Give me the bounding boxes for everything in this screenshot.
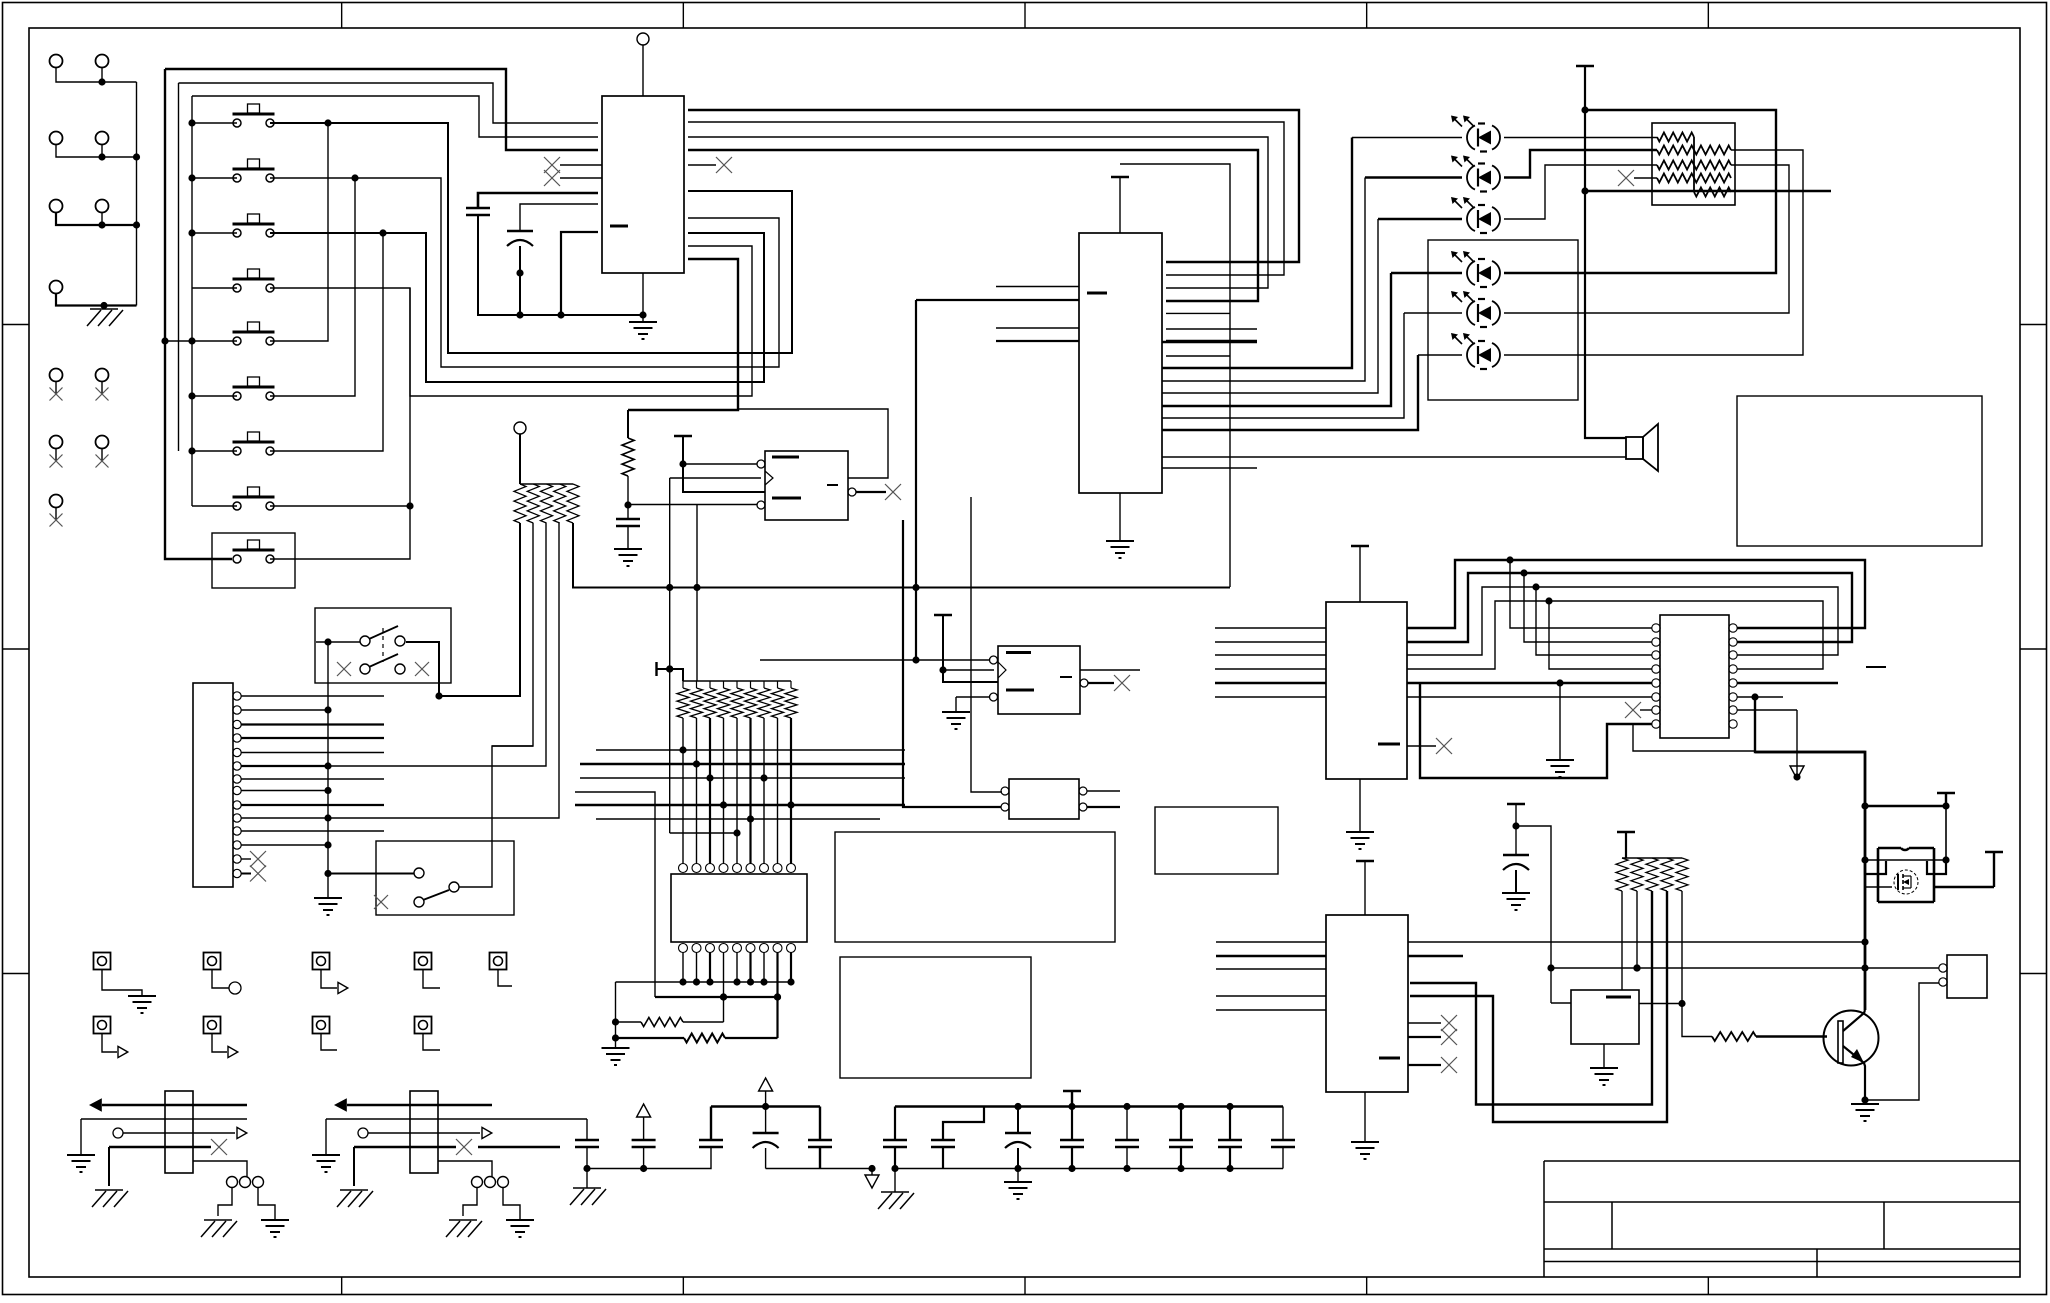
no-connect X U7 nc710 — [1625, 702, 1641, 718]
ground U6 ground — [1346, 832, 1374, 849]
wire U1 top pin — [642, 45, 644, 96]
wire C22 top — [710, 1107, 712, 1141]
chassis ground jack ground — [87, 309, 123, 326]
wire U3 vcc stem — [939, 615, 998, 682]
wire key bus — [324, 638, 331, 898]
wire U2 in1 — [683, 463, 757, 465]
wire bus r5 branch b — [1166, 355, 1230, 357]
resistor R3 — [684, 1034, 725, 1043]
wire U1 nc right — [688, 164, 716, 166]
wire U4 pin 457 speaker — [1162, 456, 1626, 458]
wire riser D lower — [270, 288, 414, 559]
capacitor C2 — [507, 231, 533, 246]
wire bank rail bottom 1 — [587, 1147, 711, 1172]
test point TP5 — [490, 953, 507, 970]
resonator Y1 — [1001, 779, 1087, 819]
wire C21 top — [643, 1117, 645, 1140]
no-connect X FB1 x — [211, 1139, 227, 1155]
wire C28 bot — [1071, 1147, 1073, 1169]
test point TP7 — [204, 1017, 221, 1034]
test jack TJ2 — [96, 369, 109, 401]
wire Q2 source out — [1934, 886, 1994, 888]
wire U5 bottom pin 1 — [679, 952, 686, 986]
wire FB2 line4 gnd — [353, 1147, 355, 1186]
ground Q1 ground — [1851, 1104, 1879, 1121]
FB1 circle pin — [113, 1128, 123, 1138]
wire LED1 net — [1162, 138, 1352, 369]
resistor network RN4 — [1616, 858, 1688, 891]
wire U4 stub 470 — [1162, 467, 1257, 469]
LED D5 — [1451, 291, 1500, 327]
wire J8 pin 752.5 — [241, 752, 384, 754]
wire FB1 line4 — [109, 1146, 211, 1148]
op-amp U2 — [757, 451, 856, 520]
wire U6-U7 697 — [1407, 696, 1652, 698]
ground mid ground — [1546, 760, 1574, 777]
filter block FB1 — [165, 1091, 193, 1173]
wire C25 bot — [894, 1147, 896, 1169]
wire U1 bus r3 — [688, 137, 1268, 288]
wire C10 bot stem — [1515, 870, 1517, 893]
wire U1 pin loop thick — [478, 193, 598, 208]
wire U1 left nc1 — [560, 164, 602, 166]
IC U4 — [1079, 233, 1162, 493]
wire J7 to ground — [56, 294, 137, 310]
resistor network RN3 — [1652, 123, 1735, 205]
wire U6 top pin — [1359, 546, 1361, 602]
wire RN2 drop 5 — [736, 718, 738, 864]
test point TP8 — [313, 1017, 330, 1034]
wire J8 pin 873 — [241, 873, 251, 875]
power flag bank vcc — [1063, 1090, 1081, 1092]
wire LED2 net — [1162, 178, 1365, 382]
wire J3-J4 join — [56, 145, 140, 161]
TP2 pin circle — [229, 982, 241, 994]
wire U2 out2 — [738, 409, 888, 478]
wire J8 pin 724.5 — [241, 723, 384, 725]
wire button row 233 left — [192, 232, 237, 234]
wire Y1 right stub1 — [1087, 790, 1120, 792]
ground C3 ground — [614, 549, 642, 566]
no-connect X U1 nc2 — [544, 170, 560, 186]
wire top bus 1 — [165, 69, 598, 150]
wire bank neg stem — [871, 1169, 873, 1176]
speaker LS1 — [1626, 424, 1658, 471]
slide switch SW10 — [315, 608, 451, 683]
wire C23 bot — [765, 1148, 767, 1169]
wire U4 stub b — [996, 327, 1079, 329]
wire RN2 drop 2 — [696, 718, 698, 864]
wire FB2 to C bank — [478, 1146, 560, 1148]
wire J8 pin 766 — [241, 765, 328, 767]
connector jack J1 — [50, 55, 63, 68]
FB2 circle pin — [358, 1128, 368, 1138]
wire SW4 net — [270, 246, 752, 396]
wire U6 bottom pin — [1359, 779, 1361, 832]
wire RN4 vcc stem — [1625, 832, 1627, 858]
ground U3 ground — [942, 712, 970, 729]
wire U3 gnd stem — [955, 697, 957, 712]
wire J8 pin 805 — [241, 804, 384, 806]
power flag U9 vcc — [1356, 860, 1374, 862]
wire net 968 — [1551, 964, 1865, 971]
wire SW11 riser — [459, 746, 533, 887]
box around D4-D6 — [1428, 240, 1578, 400]
wire FB1 line2 — [81, 1118, 247, 1120]
wire bus jog1 — [1407, 556, 1865, 628]
wire button row 451 left — [192, 450, 237, 452]
wire U2 vcc stem — [679, 436, 765, 492]
wire R2 lead b — [683, 1021, 724, 1023]
wire TP3 tail — [321, 969, 337, 988]
no-connect X J8 nc 873 — [250, 866, 266, 882]
wire FB2 line3 — [368, 1132, 480, 1134]
wire top bus 3 — [192, 96, 598, 137]
ground key bus ground — [314, 898, 342, 915]
no-connect X U1 ncr — [716, 157, 732, 173]
wire U1 bottom pin — [642, 273, 644, 322]
wire U7 right 683 — [1737, 682, 1838, 684]
test point TP6 — [94, 1017, 111, 1034]
wire LED4 row — [1391, 272, 1462, 274]
wire button row 178 left — [192, 177, 237, 179]
wire LED5 right — [1504, 165, 1789, 313]
transistor Q1 — [1824, 1011, 1879, 1066]
wire U9 nc 1065 — [1408, 1064, 1441, 1066]
wire FB2 shield gnd2 — [503, 1188, 520, 1220]
wire LED5 net — [1162, 313, 1404, 418]
wire LED3 row — [1378, 218, 1462, 220]
resistor R4 — [1712, 1032, 1756, 1041]
wire gate wire — [1865, 886, 1892, 888]
filter block FB2 — [410, 1091, 438, 1173]
test jack TJ3 — [50, 436, 63, 468]
IC U9 — [1326, 915, 1408, 1092]
wire J8 pin 696 — [241, 695, 384, 697]
wire bank rail top 1 — [711, 1103, 820, 1110]
power arrow C21 arrow — [637, 1104, 651, 1117]
wire U7 right 710 — [1737, 709, 1797, 711]
test point TP2 — [204, 953, 221, 970]
module A1 — [1737, 396, 1982, 546]
wire FB2 line5 — [438, 1161, 492, 1177]
wire FB2 shield gnd1 — [463, 1188, 477, 1216]
no-connect X U9 x1037 — [1441, 1029, 1457, 1045]
wire C24 bot — [819, 1147, 821, 1169]
wire R net to U1 pin — [628, 259, 738, 410]
box around SW9 — [212, 533, 295, 588]
wire U6 left pin 642 — [1215, 641, 1326, 643]
wire SW10 left — [316, 641, 360, 643]
IC U5 — [671, 864, 807, 953]
wire J8 pin 818 — [241, 817, 328, 819]
wire TP1 gnd — [102, 969, 142, 996]
power flag V+ rail — [1576, 65, 1594, 67]
wire U9 left pin 969 — [1216, 968, 1326, 970]
wire U6 left pin 669 — [1215, 668, 1326, 670]
resistor network RN1 — [514, 484, 579, 523]
switch SW11 — [374, 841, 514, 915]
wire U2 out — [856, 491, 886, 493]
wire bus jog2 — [1407, 569, 1852, 642]
power flag U6 vcc — [1351, 545, 1369, 547]
wire LED2 right — [1504, 150, 1657, 178]
pushbutton SW2 — [233, 159, 275, 182]
wire C10 tap — [1516, 826, 1555, 1003]
capacitor C25 — [883, 1140, 907, 1147]
wire U7 left tap4 — [1549, 601, 1652, 669]
capacitor C23 — [753, 1133, 779, 1148]
wire riser C lower — [270, 233, 383, 451]
wire riser A lower — [270, 123, 328, 341]
wire FB2 line2 ext — [492, 1118, 587, 1120]
wire C24 top — [819, 1107, 821, 1141]
wire RN4 drop3 — [1410, 891, 1652, 1105]
power flag RN2 vcc — [655, 662, 657, 676]
wire SW5 left ext — [165, 340, 192, 342]
capacitor C20 — [575, 1140, 599, 1147]
wire FB1 line1 — [102, 1104, 247, 1106]
wire C26 top — [943, 1107, 984, 1141]
power flag U3 vcc — [934, 614, 952, 616]
wire clock riser — [666, 478, 673, 833]
wire mid bus 5 — [575, 801, 905, 808]
wire U7 pin 724 loop — [1420, 683, 1652, 778]
wire button left bus A — [161, 69, 232, 559]
wire U8 gnd stem — [1603, 1044, 1605, 1068]
wire bus jog3 — [1407, 583, 1838, 655]
wire J8 pin 738 — [241, 737, 384, 739]
ground U9 ground — [1351, 1142, 1379, 1159]
wire mosfet rail — [1865, 856, 1950, 863]
ground FB1 ground L — [67, 1155, 95, 1172]
wire LED6 right — [1504, 150, 1803, 355]
wire U1 bus r2 — [688, 122, 1284, 275]
FB2 shield circles — [472, 1177, 509, 1188]
wire C27 top — [1017, 1107, 1019, 1134]
module B3 — [840, 957, 1031, 1078]
capacitor C27 — [1005, 1133, 1031, 1148]
wire FB2 line2 gnd — [325, 1119, 327, 1155]
display module DS1 — [835, 832, 1115, 942]
wire R1 top — [627, 410, 629, 438]
wire C28 top — [1071, 1107, 1073, 1141]
wire R2 lead a — [616, 1021, 642, 1023]
chassis ground bank chassis — [878, 1192, 914, 1209]
wire TP7 tail — [212, 1033, 227, 1052]
wire dn arrow stem — [1793, 710, 1800, 781]
power flag Q2 vcc2 — [1985, 851, 2003, 853]
chassis ground FB1 chassis R — [201, 1220, 237, 1237]
wire RN1 drop 2 — [492, 523, 533, 746]
wire TP5 tail — [498, 969, 512, 986]
capacitor C28 — [1060, 1140, 1084, 1147]
wire button row 506 left — [192, 505, 237, 507]
wire LED4 right — [1504, 110, 1776, 273]
wire U9 top pin — [1364, 861, 1366, 915]
wire emitter to J9 — [1865, 983, 1939, 1100]
test point TP1 — [94, 953, 111, 970]
wire C32 top — [1282, 1107, 1284, 1141]
wire U9 left pin 1010 — [1216, 1009, 1326, 1011]
TP3 arrow — [338, 982, 348, 993]
wire riser B lower — [270, 178, 355, 396]
wire C1 bottom — [478, 215, 647, 319]
wire vcc1 to rail — [1945, 806, 1947, 860]
wire C27 bot — [1017, 1148, 1019, 1169]
wire LED6 row — [1418, 354, 1462, 356]
wire mid bus 4 — [575, 792, 655, 997]
wire bank chassis stem — [894, 1169, 896, 1193]
capacitor C32 — [1271, 1140, 1295, 1147]
wire C3 gnd stem — [627, 526, 629, 549]
no-connect X U1 nc1 — [544, 157, 560, 173]
wire U5 bottom pin 8 — [774, 952, 781, 1038]
power arrow neg rail — [1790, 766, 1804, 779]
wire RN4 drop1 — [1621, 891, 1623, 990]
wire col916 — [912, 300, 919, 660]
wire RN4 drop4 — [1410, 891, 1667, 1122]
wire Q2 vcc2 stem — [1993, 852, 1995, 887]
connector jack J2 — [96, 55, 109, 68]
wire U4 top pin — [1119, 177, 1121, 233]
wire col890 — [971, 497, 1002, 792]
wire SW8 right — [270, 505, 410, 507]
wire U4 stub c — [996, 340, 1079, 342]
wire LED4 net — [1162, 273, 1391, 406]
wire U9 left pin 956 — [1216, 955, 1326, 957]
wire U1 bus r1 — [688, 110, 1299, 262]
wire C10 top stem — [1512, 804, 1519, 855]
resistor R2 — [641, 1018, 683, 1027]
wire TP2 tail — [212, 969, 229, 988]
wire button row 288 left — [192, 287, 237, 289]
connector jack J3 — [50, 132, 63, 145]
wire J4 stem — [101, 145, 103, 158]
wire U4 pin 300 — [916, 299, 1079, 301]
wire col696 feed — [696, 505, 698, 682]
wire TP4 tail — [423, 969, 440, 988]
wire U6 left pin 628 — [1215, 627, 1326, 629]
wire J5-J6 join — [56, 213, 140, 229]
wire U9 gnd stem — [1364, 1092, 1366, 1142]
wire 968 to J9 — [1865, 967, 1939, 969]
wire button row 123 left — [192, 122, 237, 124]
title block — [1544, 1161, 2020, 1277]
capacitor C10 — [1503, 855, 1529, 870]
LED D6 — [1451, 333, 1500, 369]
FB2 arrow right — [482, 1127, 492, 1138]
no-connect X U9 x1065 — [1441, 1057, 1457, 1073]
wire Q1 emitter down — [1861, 1063, 1868, 1104]
power flag C10 top flag — [1507, 803, 1525, 805]
LED D2 — [1451, 156, 1500, 192]
wire U3 clock — [943, 669, 994, 671]
chassis ground FB2 chassis R — [446, 1220, 482, 1237]
capacitor C1 — [466, 208, 490, 215]
wire U6-U7 683 — [1407, 679, 1652, 686]
wire C20 gnd stem — [586, 1169, 588, 1189]
wire U9 left pin 942 — [1216, 941, 1326, 943]
wire R rail left — [612, 982, 619, 1048]
wire U7 right 697 — [1737, 693, 1783, 700]
wire TP8 tail — [321, 1033, 337, 1050]
TP6 arrow — [118, 1046, 128, 1057]
capacitor C24 — [808, 1140, 832, 1147]
wire U9 right 941 — [1408, 941, 1695, 943]
wire RN3 out 191 — [1585, 190, 1831, 192]
LED D1 — [1451, 116, 1500, 152]
wire bank vcc stem — [1071, 1091, 1073, 1107]
wire U6 left pin 683 — [1215, 682, 1326, 684]
ground FB2 ground R — [506, 1220, 534, 1237]
LED D4 — [1451, 251, 1500, 287]
power arrow bank neg — [865, 1175, 879, 1188]
no-connect X U2 out nc — [885, 484, 901, 500]
wire U5 bottom pin 3 — [706, 952, 713, 986]
wire U7 left tap2 — [1524, 573, 1652, 642]
ground U8 ground — [1590, 1068, 1618, 1085]
wire FB1 shield gnd1 — [218, 1188, 232, 1216]
wire U1 left nc2 — [560, 177, 602, 179]
test point TP9 — [415, 1017, 432, 1034]
wire RN1 top stub — [519, 434, 521, 484]
wire RN1 drop 1 — [439, 523, 520, 696]
wire U6 left pin 655 — [1215, 654, 1326, 656]
wire pol bottom line — [766, 1165, 876, 1172]
capacitor C29 — [1115, 1140, 1139, 1147]
wire RN2 drop 3 — [709, 718, 711, 864]
wire R3 lead b — [725, 1037, 778, 1039]
wire RN2 drop 9 — [790, 718, 792, 864]
ground U1 ground — [629, 322, 657, 339]
wire vcc rail 997 — [655, 993, 781, 1000]
connector jack J6 — [96, 200, 109, 213]
wire C29 bot — [1126, 1147, 1128, 1169]
wire power trunk — [1755, 752, 1869, 1010]
wire J6 stem — [101, 213, 103, 226]
wire U4 stub 341r — [1166, 340, 1257, 342]
wire FB2 line4 — [354, 1146, 456, 1148]
wire FB1 line4 gnd — [108, 1147, 110, 1186]
RN1 top pin circle — [514, 422, 526, 434]
wire FB2 line2 — [326, 1118, 492, 1120]
IC U1 — [602, 96, 684, 273]
wire J8 pin 710 — [241, 706, 332, 713]
wire U7 right 751 — [1633, 724, 1755, 751]
wire mid bus 7 — [670, 829, 741, 836]
wire TP6 tail — [102, 1033, 117, 1052]
wire bus jog4 — [1407, 597, 1823, 669]
wire U9 left pin 996 — [1216, 995, 1326, 997]
wire J8 pin 790.5 — [241, 787, 332, 794]
wire U2 clock — [670, 477, 761, 479]
test point TP3 — [313, 953, 330, 970]
capacitor C26 — [931, 1140, 955, 1147]
wire RN1 drop 5 — [573, 523, 1230, 591]
FB1 shield circles — [227, 1177, 264, 1188]
no-connect X U6 nc746 — [1436, 738, 1452, 754]
wire U4 stub 342 — [1162, 341, 1257, 343]
IC U7 — [1652, 615, 1737, 738]
wire bank rail bottom 2 — [891, 1165, 1283, 1172]
TP7 arrow — [228, 1046, 238, 1057]
ground bank ground — [1004, 1182, 1032, 1199]
wire C25 top — [894, 1107, 896, 1141]
no-connect X U9 x1023 — [1441, 1015, 1457, 1031]
wire U9 nc 1023 — [1408, 1022, 1441, 1024]
module B2 — [1155, 807, 1278, 874]
